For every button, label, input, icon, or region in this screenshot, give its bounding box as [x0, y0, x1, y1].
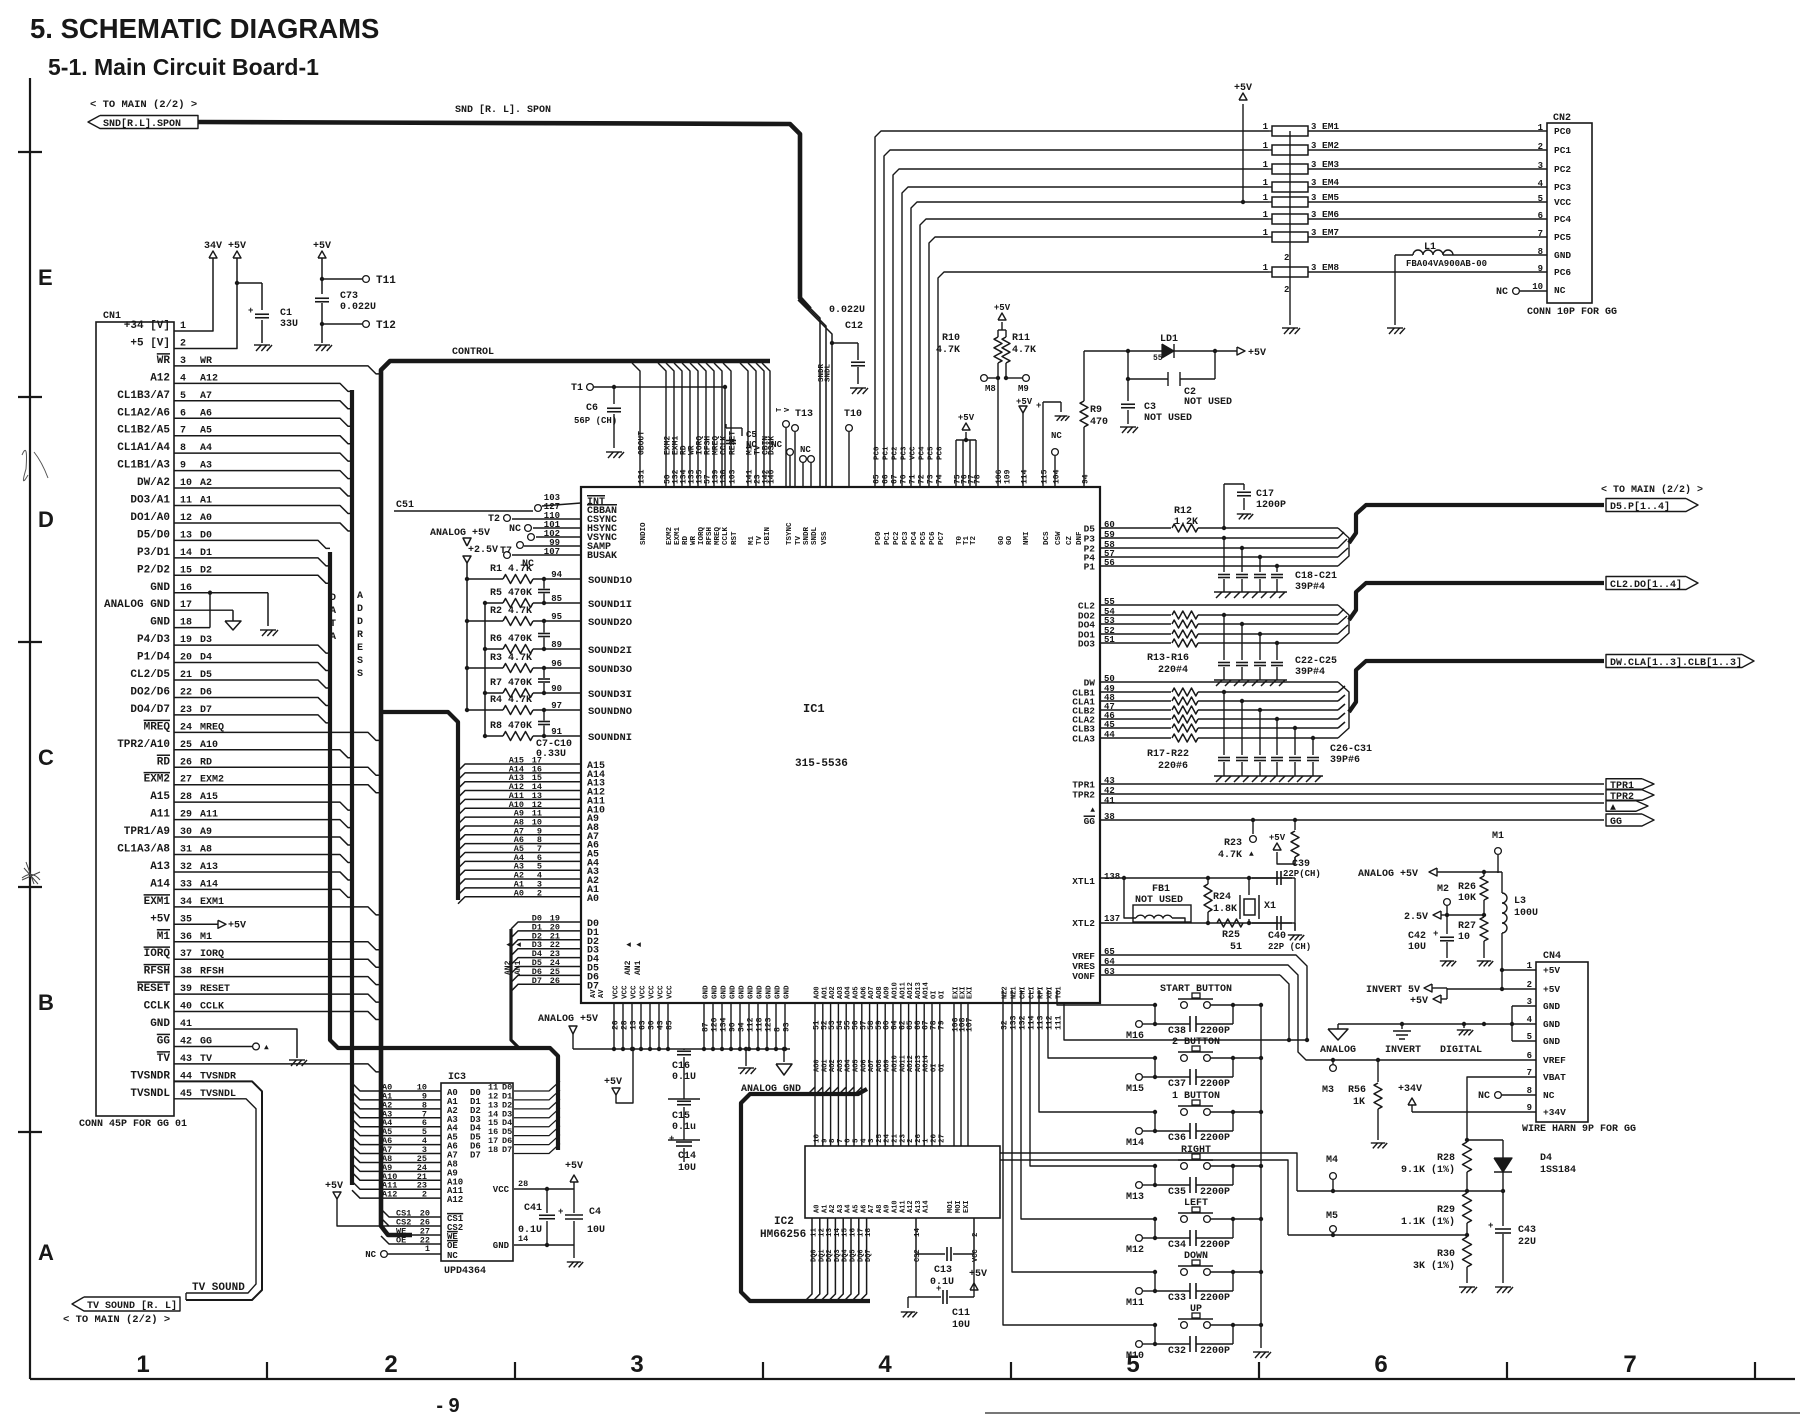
power +5V R23 — [1273, 843, 1281, 850]
svg-text:A: A — [38, 1240, 54, 1265]
svg-text:C16: C16 — [672, 1061, 690, 1072]
svg-text:10U: 10U — [678, 1163, 696, 1174]
svg-text:DIGITAL: DIGITAL — [1440, 1045, 1482, 1056]
svg-text:R28: R28 — [1437, 1153, 1455, 1164]
svg-text:+5V: +5V — [969, 1269, 987, 1280]
svg-text:7: 7 — [1623, 1351, 1636, 1378]
svg-text:10: 10 — [814, 1133, 822, 1143]
resistor R17 220 — [1100, 691, 1171, 693]
svg-text:T2: T2 — [970, 535, 978, 545]
svg-text:470: 470 — [1090, 417, 1108, 428]
svg-text:32: 32 — [1001, 1020, 1010, 1030]
svg-text:114: 114 — [1021, 469, 1030, 484]
svg-text:73: 73 — [927, 474, 936, 484]
svg-text:GG: GG — [1084, 816, 1096, 827]
wire A15-A0 address fan — [458, 764, 581, 771]
node arrow spare — [1606, 801, 1648, 812]
svg-text:3: 3 — [630, 1351, 643, 1378]
svg-text:OE: OE — [447, 1241, 458, 1251]
svg-text:GND: GND — [703, 985, 711, 999]
svg-text:1200P: 1200P — [1256, 500, 1286, 511]
svg-text:AO5: AO5 — [853, 986, 861, 999]
svg-text:30: 30 — [648, 1020, 657, 1030]
svg-text:FBA04VA900AB-00: FBA04VA900AB-00 — [1406, 259, 1487, 269]
svg-text:M15: M15 — [1126, 1084, 1144, 1095]
svg-text:SOUND1O: SOUND1O — [588, 575, 632, 587]
svg-text:85: 85 — [666, 1020, 675, 1030]
svg-text:+: + — [1036, 401, 1041, 411]
svg-text:R10: R10 — [942, 333, 960, 344]
node to-main arrow DW CLA CLB — [1606, 655, 1754, 668]
svg-text:EXI: EXI — [963, 1200, 971, 1213]
svg-text:RD: RD — [682, 535, 690, 545]
svg-text:A6: A6 — [860, 1205, 868, 1213]
node M14 — [1136, 1128, 1143, 1135]
svg-text:A12: A12 — [907, 1200, 915, 1213]
svg-text:0.022U: 0.022U — [829, 305, 865, 316]
svg-text:D7: D7 — [532, 976, 542, 986]
svg-text:LD1: LD1 — [1160, 334, 1178, 345]
ground under C73 — [314, 344, 330, 346]
svg-text:VCC: VCC — [631, 985, 639, 999]
svg-text:A13: A13 — [915, 1200, 923, 1213]
svg-text:SNDL: SNDL — [811, 526, 819, 545]
wire snd fan — [810, 308, 820, 488]
svg-text:9.1K (1%): 9.1K (1%) — [1401, 1164, 1455, 1176]
svg-text:▲: ▲ — [1249, 850, 1254, 859]
svg-text:138: 138 — [1104, 872, 1120, 882]
svg-text:XTL1: XTL1 — [1072, 876, 1095, 887]
svg-text:M4: M4 — [1326, 1155, 1338, 1166]
svg-text:103: 103 — [729, 469, 738, 484]
wire C39C40 common to ground — [1294, 878, 1296, 923]
svg-text:D5/D0: D5/D0 — [137, 529, 170, 541]
svg-text:VCC: VCC — [613, 985, 621, 999]
svg-text:MREQ: MREQ — [144, 721, 171, 733]
svg-text:D: D — [330, 593, 336, 604]
svg-text:13: 13 — [630, 1020, 639, 1030]
svg-text:VONF: VONF — [1072, 971, 1095, 982]
svg-text:DW/A2: DW/A2 — [137, 477, 170, 489]
test point T2 — [512, 518, 581, 520]
resistor R21 220 — [1100, 727, 1171, 729]
svg-text:1: 1 — [923, 1138, 931, 1143]
svg-text:1: 1 — [1263, 141, 1269, 151]
svg-text:AO8: AO8 — [876, 1059, 884, 1072]
node M15 — [1136, 1074, 1143, 1081]
capacitor C34 2200P — [1154, 1219, 1156, 1238]
svg-text:IORQ: IORQ — [144, 948, 171, 960]
svg-text:CS2: CS2 — [914, 1249, 922, 1262]
svg-text:79: 79 — [937, 1020, 946, 1030]
svg-text:C42: C42 — [1408, 931, 1426, 942]
svg-text:SOUNDNI: SOUNDNI — [588, 732, 632, 744]
svg-text:26: 26 — [612, 1020, 621, 1030]
svg-text:2200P: 2200P — [1200, 1026, 1230, 1037]
svg-text:R3 4.7K: R3 4.7K — [490, 653, 532, 664]
svg-text:CBIN: CBIN — [764, 527, 772, 545]
svg-text:C13: C13 — [934, 1265, 952, 1276]
svg-text:AO6: AO6 — [860, 986, 868, 999]
svg-text:DO1/A0: DO1/A0 — [130, 512, 170, 524]
svg-text:6: 6 — [845, 1138, 853, 1143]
wire ground row — [1338, 1023, 1484, 1025]
svg-text:+5V: +5V — [150, 913, 170, 925]
svg-text:AO2: AO2 — [829, 1059, 837, 1072]
svg-text:D: D — [357, 604, 363, 615]
svg-text:0.1U: 0.1U — [518, 1225, 542, 1236]
svg-text:T: T — [776, 408, 784, 412]
svg-text:20: 20 — [931, 1133, 939, 1143]
svg-text:AO12: AO12 — [907, 982, 915, 999]
svg-text:A0: A0 — [587, 894, 599, 905]
svg-text:26: 26 — [915, 1133, 923, 1143]
capacitor C26-C31 39P#6 — [1223, 692, 1225, 755]
svg-text:A12: A12 — [150, 372, 170, 384]
svg-text:220#6: 220#6 — [1158, 761, 1188, 772]
svg-text:112: 112 — [747, 1017, 756, 1032]
svg-text:GG: GG — [157, 1035, 171, 1047]
svg-text:GND: GND — [757, 985, 765, 999]
wire XTL2 — [1100, 922, 1292, 924]
svg-text:SND[R.L].SPON: SND[R.L].SPON — [103, 118, 181, 130]
svg-text:8: 8 — [1538, 247, 1543, 257]
svg-text:10U: 10U — [1408, 942, 1426, 953]
node test point below GG — [1251, 818, 1255, 822]
svg-text:SOUNDNO: SOUNDNO — [588, 706, 632, 718]
wire VBAT down to R28 — [1467, 1077, 1536, 1140]
svg-text:131: 131 — [638, 469, 647, 484]
svg-text:A7: A7 — [868, 1205, 876, 1213]
svg-text:C36: C36 — [1168, 1133, 1186, 1144]
svg-text:A11: A11 — [150, 809, 170, 821]
svg-text:GND: GND — [1543, 1036, 1560, 1047]
svg-text:M1: M1 — [157, 931, 171, 943]
svg-text:1.8K: 1.8K — [1213, 904, 1237, 915]
svg-text:AO13: AO13 — [915, 982, 923, 999]
svg-text:65: 65 — [873, 474, 882, 484]
svg-text:2200P: 2200P — [1200, 1133, 1230, 1144]
svg-text:T10: T10 — [844, 409, 862, 420]
svg-text:VBAT: VBAT — [1543, 1072, 1566, 1083]
svg-text:A0: A0 — [514, 888, 524, 898]
svg-text:+5V: +5V — [313, 241, 331, 252]
svg-text:4.7K: 4.7K — [1012, 345, 1036, 356]
svg-text:PC1: PC1 — [883, 446, 891, 460]
svg-text:AN1: AN1 — [514, 960, 523, 975]
svg-text:SNDL: SNDL — [825, 363, 833, 382]
svg-text:GND: GND — [1543, 1001, 1560, 1012]
svg-text:ANALOG +5V: ANALOG +5V — [1358, 869, 1418, 880]
svg-text:E: E — [357, 643, 363, 654]
svg-text:CN2: CN2 — [1553, 113, 1571, 124]
svg-text:ANALOG +5V: ANALOG +5V — [538, 1014, 598, 1025]
svg-text:MOI: MOI — [955, 1200, 963, 1213]
capacitor C73 0.022U — [321, 258, 323, 294]
svg-text:+: + — [1433, 929, 1438, 939]
svg-text:OI: OI — [938, 991, 946, 999]
svg-text:PC6: PC6 — [929, 531, 937, 545]
svg-text:63: 63 — [639, 1020, 648, 1030]
svg-text:AO7: AO7 — [868, 986, 876, 999]
svg-text:51: 51 — [1230, 942, 1242, 953]
wire EM common chain — [1289, 131, 1291, 272]
svg-text:22P (CH): 22P (CH) — [1268, 942, 1311, 952]
svg-text:TV SOUND [R. L]: TV SOUND [R. L] — [87, 1300, 177, 1312]
svg-text:RFSH: RFSH — [144, 966, 170, 978]
svg-text:T: T — [330, 619, 336, 630]
svg-text:CCLK: CCLK — [722, 526, 730, 545]
svg-text:GO: GO — [1006, 535, 1014, 545]
capacitor C33 2200P — [1154, 1272, 1156, 1291]
svg-text:4: 4 — [878, 1351, 892, 1378]
svg-text:< TO MAIN (2/2) >: < TO MAIN (2/2) > — [90, 99, 197, 111]
power +5V — [233, 251, 241, 258]
svg-text:14: 14 — [914, 1227, 922, 1237]
svg-text:AO13: AO13 — [915, 1055, 923, 1072]
svg-text:TV: TV — [157, 1053, 171, 1065]
svg-text:▲: ▲ — [625, 942, 634, 947]
svg-text:SOUND1I: SOUND1I — [588, 599, 632, 611]
svg-text:27: 27 — [938, 1134, 946, 1143]
svg-text:PC2: PC2 — [1554, 164, 1571, 175]
resistor R19 220 — [1100, 709, 1171, 711]
svg-text:PC0: PC0 — [874, 446, 882, 460]
capacitor C11 10U — [915, 1254, 917, 1297]
resistor R20 220 — [1100, 718, 1171, 720]
svg-text:71: 71 — [909, 474, 918, 484]
svg-text:C73: C73 — [340, 291, 358, 302]
svg-text:RFSH: RFSH — [706, 527, 714, 545]
svg-text:CL1A1/A4: CL1A1/A4 — [117, 442, 170, 454]
svg-text:SNDR: SNDR — [803, 526, 811, 545]
svg-text:+5V: +5V — [228, 241, 246, 252]
svg-text:R: R — [357, 630, 363, 641]
svg-text:CONTROL: CONTROL — [452, 347, 494, 358]
wire VREF VRES VONF — [1100, 954, 1108, 956]
svg-text:GND: GND — [775, 985, 783, 999]
node to-main arrow CL2 DO — [1606, 577, 1698, 590]
svg-text:22U: 22U — [1518, 1237, 1536, 1248]
resistor R30 3K(1%) — [1463, 1237, 1472, 1267]
svg-text:CL1B3/A7: CL1B3/A7 — [117, 390, 170, 402]
svg-text:26: 26 — [550, 976, 560, 986]
svg-text:R7 470K: R7 470K — [490, 678, 532, 689]
svg-text:EXM2: EXM2 — [666, 526, 674, 545]
svg-text:1: 1 — [1263, 193, 1269, 203]
node NC vsync — [536, 536, 581, 538]
svg-text:EXI: EXI — [967, 986, 975, 999]
svg-text:21: 21 — [892, 1133, 900, 1143]
svg-text:A0: A0 — [814, 1205, 822, 1213]
svg-text:M12: M12 — [1126, 1245, 1144, 1256]
resistor R24 1.8K — [1204, 884, 1212, 912]
svg-text:111: 111 — [1055, 1015, 1064, 1030]
svg-text:DW.CLA[1..3].CLB[1..3]: DW.CLA[1..3].CLB[1..3] — [1610, 657, 1742, 669]
wire button ground rail — [1260, 1005, 1262, 1348]
svg-text:HM66256: HM66256 — [760, 1229, 806, 1241]
svg-text:+5V: +5V — [958, 413, 975, 423]
crystal X1 — [1244, 899, 1255, 915]
svg-text:M2: M2 — [1437, 884, 1449, 895]
svg-text:PC7: PC7 — [938, 531, 946, 545]
svg-text:A1: A1 — [821, 1205, 829, 1213]
svg-text:NC: NC — [1543, 1090, 1555, 1101]
svg-text:100U: 100U — [1514, 908, 1538, 919]
svg-text:A12: A12 — [447, 1195, 463, 1205]
svg-text:4: 4 — [860, 1138, 868, 1143]
svg-text:+5V: +5V — [1410, 996, 1428, 1007]
svg-text:28: 28 — [621, 1020, 630, 1030]
wire +2.5V rail — [466, 563, 468, 710]
svg-text:VCC: VCC — [910, 446, 918, 460]
svg-text:X1: X1 — [1264, 901, 1276, 912]
resistor R15 220 — [1100, 633, 1171, 635]
earth invert symbol — [1401, 1024, 1403, 1029]
svg-text:EXM1: EXM1 — [674, 526, 682, 545]
svg-text:DO3/A1: DO3/A1 — [130, 495, 170, 507]
svg-text:+5V: +5V — [1543, 965, 1560, 976]
svg-text:AO1: AO1 — [821, 986, 829, 999]
svg-text:2: 2 — [422, 1190, 427, 1200]
svg-text:< TO MAIN (2/2) >: < TO MAIN (2/2) > — [1601, 484, 1703, 496]
svg-text:NC: NC — [447, 1251, 458, 1261]
node arrow GG — [1606, 814, 1654, 826]
ground digital symbol — [1463, 1024, 1465, 1028]
svg-text:132: 132 — [1019, 1015, 1028, 1030]
svg-text:L3: L3 — [1514, 896, 1526, 907]
svg-text:1K: 1K — [1353, 1097, 1365, 1108]
svg-text:T11: T11 — [376, 275, 396, 287]
node arrow TPR2 — [1606, 790, 1654, 801]
ground right of C40 — [1294, 923, 1296, 931]
ground under L1 — [1387, 327, 1403, 329]
svg-text:R4 4.7K: R4 4.7K — [490, 695, 532, 706]
resistor R26 10K — [1480, 876, 1488, 900]
svg-text:39P#4: 39P#4 — [1295, 582, 1325, 593]
svg-text:114: 114 — [1028, 1015, 1037, 1030]
svg-text:2: 2 — [1284, 253, 1289, 263]
connector CN4 — [1536, 962, 1588, 1122]
wire +5V pin35 — [174, 923, 218, 925]
svg-text:ANALOG: ANALOG — [1320, 1045, 1356, 1056]
svg-text:PC5: PC5 — [920, 531, 928, 545]
svg-text:CSW: CSW — [1055, 531, 1063, 545]
svg-text:M14: M14 — [1126, 1138, 1144, 1149]
svg-text:CL2/D5: CL2/D5 — [130, 669, 170, 681]
svg-text:315-5536: 315-5536 — [795, 758, 848, 770]
svg-text:NC: NC — [509, 524, 521, 535]
svg-text:NC: NC — [746, 440, 757, 450]
bus ADDRESS thick — [350, 390, 354, 1185]
svg-text:C22-C25: C22-C25 — [1295, 656, 1337, 667]
svg-text:2: 2 — [907, 1138, 915, 1143]
svg-text:41: 41 — [1104, 796, 1115, 806]
memory IC2 HM66256 body — [805, 1146, 1000, 1218]
svg-text:GND: GND — [1543, 1019, 1560, 1030]
svg-text:AO4: AO4 — [845, 1059, 853, 1072]
svg-text:M8: M8 — [985, 384, 996, 394]
svg-text:2: 2 — [1284, 285, 1289, 295]
svg-text:3: 3 — [868, 1138, 876, 1143]
svg-text:1: 1 — [1263, 210, 1269, 220]
svg-text:PC0: PC0 — [1554, 126, 1571, 137]
svg-text:M1: M1 — [748, 535, 756, 545]
analog ground symbol — [1337, 1024, 1339, 1029]
resistor R13 220 — [1100, 614, 1171, 616]
svg-text:UPD4364: UPD4364 — [444, 1266, 486, 1277]
svg-text:66: 66 — [882, 474, 891, 484]
svg-text:1.1K (1%): 1.1K (1%) — [1401, 1216, 1455, 1228]
svg-text:43: 43 — [657, 1020, 666, 1030]
svg-text:INVERT: INVERT — [1385, 1045, 1421, 1056]
svg-text:8: 8 — [829, 1138, 837, 1143]
svg-text:18: 18 — [488, 1145, 498, 1155]
svg-text:AO0: AO0 — [814, 1059, 822, 1072]
svg-text:2: 2 — [537, 888, 542, 898]
svg-text:▲: ▲ — [1610, 803, 1616, 814]
svg-text:T13: T13 — [795, 409, 813, 420]
svg-text:93: 93 — [783, 1022, 792, 1032]
svg-text:AO10: AO10 — [892, 982, 900, 999]
svg-text:C12: C12 — [845, 321, 863, 332]
svg-text:0.1U: 0.1U — [672, 1072, 696, 1083]
svg-text:R5 470K: R5 470K — [490, 588, 532, 599]
svg-text:A4: A4 — [845, 1205, 853, 1213]
svg-text:NZ2: NZ2 — [1002, 986, 1010, 999]
svg-text:+: + — [558, 1207, 563, 1217]
svg-text:9: 9 — [1538, 264, 1543, 274]
svg-text:D4: D4 — [1540, 1153, 1552, 1164]
svg-text:- 9: - 9 — [436, 1395, 459, 1417]
svg-text:DNF: DNF — [1076, 531, 1084, 545]
svg-text:2.5V: 2.5V — [1404, 912, 1428, 923]
svg-text:C51: C51 — [396, 500, 414, 511]
resistor R14 220 — [1100, 623, 1171, 625]
svg-text:A14: A14 — [150, 878, 170, 890]
svg-text:34: 34 — [738, 1022, 747, 1032]
capacitor C2 NOT USED — [1127, 351, 1129, 379]
svg-text:A2: A2 — [829, 1205, 837, 1213]
capacitor C17 1200P — [1223, 484, 1225, 528]
capacitor C14 10U — [676, 1141, 692, 1143]
svg-text:DO2/D6: DO2/D6 — [130, 686, 170, 698]
capacitor group near NC right — [1043, 401, 1061, 403]
svg-text:+5 [V]: +5 [V] — [130, 337, 170, 349]
svg-text:GND: GND — [150, 1018, 170, 1030]
resistor R18 220 — [1100, 700, 1171, 702]
node GG pin42 — [174, 1045, 252, 1047]
svg-text:CLI: CLI — [1029, 986, 1037, 999]
svg-text:P2/D2: P2/D2 — [137, 564, 170, 576]
svg-text:GO: GO — [998, 535, 1006, 545]
wire output group2 CL2 DO group — [1100, 604, 1338, 606]
svg-text:112: 112 — [1046, 1015, 1055, 1030]
svg-text:D7: D7 — [470, 1151, 481, 1161]
wire D0-D7 data fan — [511, 922, 581, 929]
svg-text:C40: C40 — [1268, 931, 1286, 942]
svg-text:GND: GND — [493, 1241, 510, 1251]
svg-text:INVERT 5V: INVERT 5V — [1366, 985, 1420, 996]
capacitor C3 NOT USED — [1127, 379, 1129, 401]
svg-text:GND: GND — [766, 985, 774, 999]
svg-text:0.1U: 0.1U — [930, 1277, 954, 1288]
test point T12 — [363, 321, 370, 328]
capacitor C32 2200P — [1154, 1325, 1156, 1344]
svg-text:2: 2 — [1538, 142, 1543, 152]
svg-text:25: 25 — [876, 1133, 884, 1143]
svg-text:NC: NC — [800, 445, 811, 455]
